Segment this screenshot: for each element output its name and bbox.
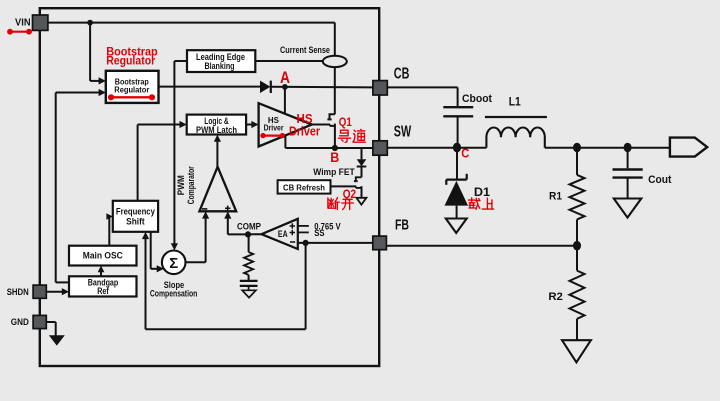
svg-text:PWM: PWM bbox=[176, 175, 186, 195]
svg-text:R1: R1 bbox=[549, 190, 563, 202]
svg-text:PWM Latch: PWM Latch bbox=[196, 125, 237, 135]
svg-text:Σ: Σ bbox=[169, 255, 178, 272]
svg-text:Main OSC: Main OSC bbox=[83, 251, 123, 261]
svg-text:Current Sense: Current Sense bbox=[280, 45, 330, 56]
svg-text:FB: FB bbox=[395, 216, 409, 233]
svg-text:COMP: COMP bbox=[237, 221, 262, 232]
svg-text:Cboot: Cboot bbox=[462, 93, 492, 105]
svg-text:Ref: Ref bbox=[97, 286, 109, 296]
svg-text:CB Refresh: CB Refresh bbox=[283, 182, 325, 192]
svg-text:Regulator: Regulator bbox=[114, 84, 150, 94]
svg-text:Driver: Driver bbox=[289, 124, 320, 139]
svg-text:Shift: Shift bbox=[126, 216, 145, 226]
svg-text:VIN: VIN bbox=[15, 18, 31, 29]
svg-text:D1: D1 bbox=[474, 185, 491, 199]
svg-text:EA: EA bbox=[278, 229, 288, 239]
svg-text:GND: GND bbox=[11, 317, 29, 327]
svg-text:SS: SS bbox=[314, 227, 324, 238]
svg-text:R2: R2 bbox=[548, 291, 563, 303]
svg-text:Wimp FET: Wimp FET bbox=[313, 167, 355, 177]
svg-text:Regulator: Regulator bbox=[106, 53, 155, 67]
svg-text:Q1: Q1 bbox=[339, 115, 352, 129]
svg-text:SHDN: SHDN bbox=[7, 287, 29, 297]
svg-text:Frequency: Frequency bbox=[116, 207, 155, 217]
svg-text:L1: L1 bbox=[509, 95, 521, 109]
svg-text:CB: CB bbox=[394, 65, 410, 82]
svg-text:B: B bbox=[330, 149, 339, 165]
svg-text:Comparator: Comparator bbox=[186, 166, 196, 204]
svg-text:Cout: Cout bbox=[648, 174, 672, 186]
svg-text:A: A bbox=[280, 69, 290, 87]
svg-text:SW: SW bbox=[394, 124, 412, 141]
svg-text:Driver: Driver bbox=[264, 123, 285, 133]
svg-text:Blanking: Blanking bbox=[205, 61, 235, 71]
svg-text:Compensation: Compensation bbox=[150, 288, 198, 298]
